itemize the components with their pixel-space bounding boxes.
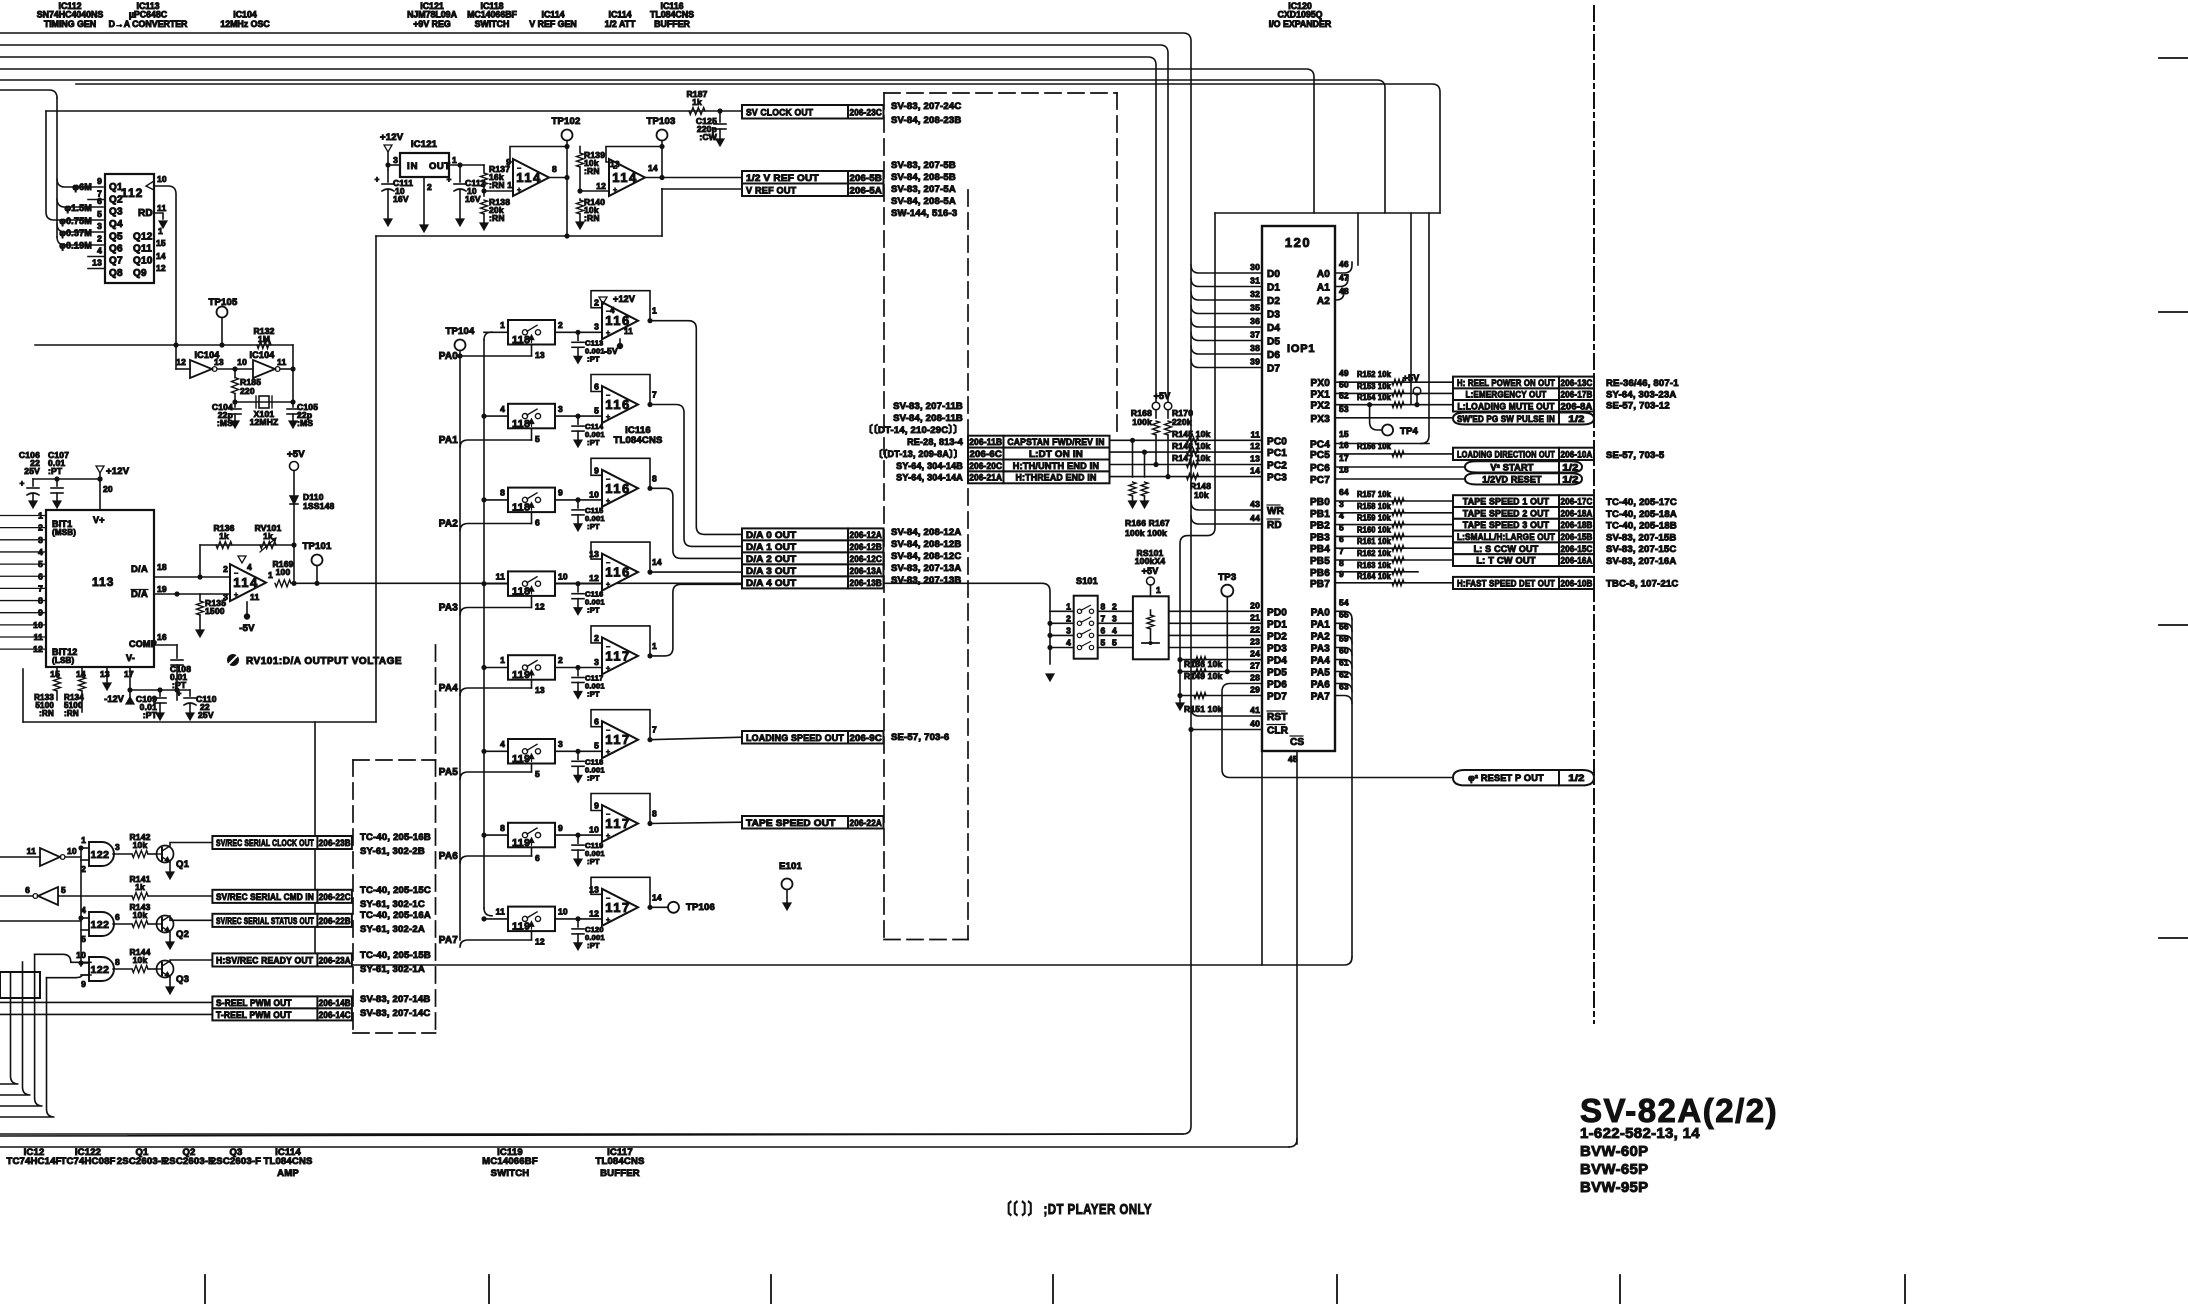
svg-text:100k: 100k [1132, 417, 1152, 427]
svg-text:10: 10 [237, 357, 247, 367]
svg-text:19: 19 [157, 584, 167, 594]
svg-text:10k: 10k [133, 955, 148, 965]
svg-text:12: 12 [156, 263, 166, 273]
svg-text:11: 11 [27, 846, 36, 856]
svg-text:56: 56 [1339, 621, 1349, 631]
svg-text:206-13C: 206-13C [1561, 378, 1593, 388]
svg-text::RN: :RN [489, 213, 505, 223]
svg-text:PB2: PB2 [1310, 521, 1330, 532]
svg-text:30: 30 [1250, 262, 1260, 272]
svg-text:206-10A: 206-10A [1561, 449, 1593, 459]
svg-text:220: 220 [240, 386, 255, 396]
svg-text:2: 2 [1066, 613, 1071, 623]
svg-text:D/A 2 OUT: D/A 2 OUT [746, 554, 796, 565]
svg-text:L:EMERGENCY OUT: L:EMERGENCY OUT [1466, 390, 1547, 400]
svg-text::RN: :RN [39, 709, 54, 718]
svg-text:R164 10k: R164 10k [1357, 572, 1391, 581]
svg-text:PB6: PB6 [1310, 568, 1330, 579]
svg-text:64: 64 [1339, 487, 1349, 497]
svg-text:−: − [606, 644, 610, 651]
svg-text:18: 18 [157, 562, 167, 572]
svg-text:TP101: TP101 [303, 541, 333, 552]
svg-text:1/2 ATT: 1/2 ATT [605, 19, 636, 29]
svg-text:206-12C: 206-12C [850, 554, 883, 564]
svg-text:206-22A: 206-22A [850, 818, 883, 828]
svg-text:PA7: PA7 [439, 935, 459, 946]
svg-text::PT: :PT [587, 354, 600, 363]
svg-text:13: 13 [535, 685, 545, 695]
svg-text:Q1: Q1 [176, 859, 190, 870]
svg-text:−: − [606, 476, 610, 483]
svg-text:L: S CCW OUT: L: S CCW OUT [1474, 544, 1539, 554]
svg-text:39: 39 [1250, 357, 1260, 367]
svg-text:+5V: +5V [1403, 373, 1420, 383]
svg-text:D0: D0 [1267, 269, 1280, 280]
svg-text::CW: :CW [699, 132, 717, 142]
svg-text:PX3: PX3 [1310, 414, 1330, 425]
svg-text:5: 5 [1112, 638, 1117, 648]
svg-text:V REF GEN: V REF GEN [529, 19, 576, 29]
svg-text:φ1.5M: φ1.5M [65, 203, 92, 213]
svg-text:15: 15 [1339, 429, 1349, 439]
svg-text:(LSB): (LSB) [52, 656, 74, 665]
svg-text:A2: A2 [1317, 296, 1330, 307]
svg-text:27: 27 [1250, 661, 1260, 671]
svg-text:5: 5 [38, 559, 43, 569]
svg-text:SV/REC SERIAL STATUS OUT: SV/REC SERIAL STATUS OUT [216, 916, 314, 926]
svg-text:118: 118 [512, 334, 530, 346]
svg-text:1k: 1k [692, 97, 702, 107]
svg-text:H: REEL POWER ON OUT: H: REEL POWER ON OUT [1457, 378, 1555, 388]
svg-text:16V: 16V [393, 194, 409, 204]
svg-text:206-10B: 206-10B [1561, 578, 1593, 588]
svg-text:PA5: PA5 [1311, 668, 1331, 679]
svg-text:PX2: PX2 [1310, 401, 1330, 412]
svg-text:SY-61, 302-1C: SY-61, 302-1C [360, 899, 425, 910]
svg-text:−: − [517, 166, 521, 173]
svg-text:10: 10 [589, 825, 599, 835]
svg-text:RV101:D/A OUTPUT VOLTAGE: RV101:D/A OUTPUT VOLTAGE [246, 656, 402, 667]
svg-text:SW-144, 516-3: SW-144, 516-3 [891, 208, 957, 219]
svg-text:206-9C: 206-9C [850, 733, 883, 743]
svg-text:PX0: PX0 [1310, 378, 1330, 389]
svg-text::PT: :PT [587, 857, 600, 866]
svg-text:PA1: PA1 [1311, 619, 1331, 630]
svg-text:R154 10k: R154 10k [1357, 393, 1391, 402]
svg-text:1/2: 1/2 [1562, 462, 1578, 472]
svg-text:8: 8 [38, 596, 43, 606]
svg-text:PA3: PA3 [1311, 644, 1331, 655]
svg-text:41: 41 [1250, 705, 1260, 715]
svg-text:-12V: -12V [104, 694, 124, 704]
svg-text:16: 16 [157, 632, 167, 642]
svg-text:8: 8 [115, 957, 120, 967]
svg-text:PD7: PD7 [1267, 692, 1287, 703]
svg-text:13: 13 [92, 258, 102, 268]
svg-text:7: 7 [38, 583, 43, 593]
svg-text::MS: :MS [217, 418, 233, 428]
svg-text:+: + [606, 665, 610, 672]
svg-text:38: 38 [1250, 343, 1260, 353]
svg-text:Q9: Q9 [133, 268, 147, 279]
svg-text:43: 43 [1250, 499, 1260, 509]
svg-text:3: 3 [1339, 499, 1344, 509]
svg-text:+5V: +5V [1142, 566, 1159, 576]
svg-text:36: 36 [1250, 316, 1260, 326]
svg-text:18: 18 [1339, 465, 1349, 475]
svg-text:12: 12 [535, 601, 545, 611]
svg-text:PB4: PB4 [1310, 544, 1330, 555]
svg-text:D5: D5 [1267, 337, 1280, 348]
svg-text:+9V REG: +9V REG [413, 19, 451, 29]
svg-text:12: 12 [596, 181, 606, 191]
svg-text:9: 9 [38, 608, 43, 618]
svg-text:SV-84, 208-5A: SV-84, 208-5A [891, 196, 956, 207]
svg-text:1/2 V REF OUT: 1/2 V REF OUT [746, 173, 819, 184]
svg-text:D3: D3 [1267, 310, 1280, 321]
svg-text:R157 10k: R157 10k [1357, 490, 1391, 499]
svg-text:SV-84, 208-12B: SV-84, 208-12B [891, 539, 961, 550]
svg-text:RD: RD [1267, 520, 1282, 531]
svg-text:SV-83, 207-15C: SV-83, 207-15C [1606, 544, 1676, 555]
svg-text:+: + [517, 187, 521, 194]
svg-text:SV-83, 207-5A: SV-83, 207-5A [891, 184, 956, 195]
svg-text:CXD1095Q: CXD1095Q [1278, 10, 1323, 20]
svg-text:TP103: TP103 [647, 116, 676, 127]
svg-text:2: 2 [594, 298, 599, 308]
svg-text:4: 4 [1066, 638, 1071, 648]
svg-text:R158 10k: R158 10k [1357, 502, 1391, 511]
svg-text:4: 4 [1339, 511, 1344, 521]
svg-text:D/A 0 OUT: D/A 0 OUT [746, 530, 796, 541]
svg-text:+5V: +5V [1154, 391, 1171, 401]
svg-text:4: 4 [1112, 625, 1117, 635]
svg-text:220k: 220k [1172, 417, 1192, 427]
svg-text:1/2: 1/2 [1568, 414, 1584, 424]
svg-text:9: 9 [97, 176, 102, 186]
svg-text:61: 61 [1339, 658, 1349, 668]
svg-text:D/A 4 OUT: D/A 4 OUT [746, 578, 796, 589]
svg-text:100k 100k: 100k 100k [1125, 528, 1167, 538]
svg-text:122: 122 [91, 849, 110, 861]
svg-text:NJM78L09A: NJM78L09A [407, 10, 458, 20]
svg-text:+5V: +5V [287, 449, 305, 460]
svg-text:SN74HC4040NS: SN74HC4040NS [37, 10, 104, 20]
svg-text:L:SMALL/H:LARGE OUT: L:SMALL/H:LARGE OUT [1457, 532, 1555, 542]
svg-text:MC14066BF: MC14066BF [482, 1156, 538, 1167]
svg-text:6: 6 [594, 717, 599, 727]
svg-text:I/O EXPANDER: I/O EXPANDER [1269, 19, 1332, 29]
svg-text:4: 4 [97, 246, 102, 256]
svg-text:-5V: -5V [604, 346, 618, 356]
svg-text:1k: 1k [135, 882, 145, 892]
svg-text:BUFFER: BUFFER [600, 1168, 640, 1179]
svg-text:A0: A0 [1317, 269, 1330, 280]
svg-text:PA4: PA4 [439, 683, 459, 694]
svg-text:-5V: -5V [239, 623, 255, 634]
svg-text:D2: D2 [1267, 296, 1280, 307]
svg-text:SV-84, 208-5B: SV-84, 208-5B [891, 172, 956, 183]
svg-text:WR: WR [1267, 506, 1285, 517]
svg-text:SV-84, 208-23B: SV-84, 208-23B [891, 115, 961, 126]
svg-text:29: 29 [1250, 685, 1260, 695]
svg-text:(MSB): (MSB) [52, 528, 76, 537]
svg-text:2: 2 [223, 564, 228, 574]
svg-text:45: 45 [1288, 754, 1298, 764]
svg-text:118: 118 [512, 585, 530, 597]
svg-text:206-20C: 206-20C [969, 461, 1002, 471]
svg-text:8: 8 [652, 809, 657, 819]
svg-text:R146 10k: R146 10k [1172, 441, 1211, 451]
svg-text:54: 54 [1339, 597, 1349, 607]
svg-text:7: 7 [1339, 546, 1344, 556]
svg-text:Q3: Q3 [176, 974, 189, 985]
svg-text:13: 13 [589, 884, 599, 894]
svg-text:TP102: TP102 [552, 116, 581, 127]
svg-text:10: 10 [67, 846, 77, 856]
svg-text:SY-64, 303-23A: SY-64, 303-23A [1606, 389, 1676, 400]
svg-text:13: 13 [1250, 454, 1260, 464]
svg-text:PX1: PX1 [1310, 389, 1330, 400]
svg-text:11: 11 [496, 571, 505, 581]
svg-text:+: + [606, 917, 610, 924]
svg-text:H:FAST SPEED DET OUT: H:FAST SPEED DET OUT [1457, 578, 1555, 588]
svg-text:5: 5 [535, 769, 540, 779]
svg-text:+12V: +12V [106, 466, 130, 477]
svg-text:12: 12 [589, 573, 599, 583]
svg-text:PD4: PD4 [1267, 656, 1287, 667]
svg-text:119: 119 [512, 921, 530, 933]
svg-text:1k: 1k [219, 531, 229, 541]
svg-text:11: 11 [250, 592, 259, 602]
svg-text:8: 8 [652, 473, 657, 483]
svg-text:15: 15 [156, 238, 166, 248]
svg-text:V+: V+ [93, 515, 105, 525]
svg-text:8: 8 [1101, 601, 1106, 611]
svg-text:SV-84, 208-12C: SV-84, 208-12C [891, 551, 961, 562]
svg-text:COMP: COMP [129, 639, 157, 649]
svg-text:+: + [613, 187, 617, 194]
svg-text:4: 4 [500, 739, 505, 749]
svg-text:SY-64, 304-14B: SY-64, 304-14B [896, 461, 963, 471]
svg-text:119: 119 [512, 753, 530, 765]
svg-text:V-: V- [126, 653, 135, 663]
svg-text:2: 2 [558, 655, 563, 665]
svg-text:11: 11 [496, 907, 505, 917]
svg-text:R159 10k: R159 10k [1357, 514, 1391, 523]
svg-text:2: 2 [81, 864, 86, 874]
svg-text:6: 6 [1339, 534, 1344, 544]
svg-text:13: 13 [589, 549, 599, 559]
svg-text:10: 10 [76, 950, 86, 960]
svg-text:2SC2603-F: 2SC2603-F [211, 1156, 261, 1167]
svg-text:206-23C: 206-23C [850, 107, 883, 117]
svg-text:PC3: PC3 [1267, 473, 1287, 484]
svg-text:PC0: PC0 [1267, 436, 1287, 447]
svg-text:20: 20 [103, 484, 113, 494]
svg-text:D→A CONVERTER: D→A CONVERTER [109, 19, 188, 29]
svg-text:SV-83, 207-15B: SV-83, 207-15B [1606, 532, 1676, 543]
svg-text:206-23B: 206-23B [319, 838, 351, 848]
svg-text:SV-83, 207-24C: SV-83, 207-24C [891, 101, 961, 112]
svg-text:4: 4 [247, 562, 252, 572]
svg-text:BVW-65P: BVW-65P [1580, 1161, 1648, 1178]
svg-text:IC104: IC104 [233, 10, 257, 20]
svg-text:TBC-8, 107-21C: TBC-8, 107-21C [1606, 579, 1679, 590]
svg-text:5: 5 [61, 885, 66, 895]
svg-text:R160 10k: R160 10k [1357, 525, 1391, 534]
svg-text:+: + [606, 330, 610, 337]
svg-text::MS: :MS [297, 418, 313, 428]
svg-text:PA4: PA4 [1311, 656, 1331, 667]
svg-text:206-22B: 206-22B [319, 916, 351, 926]
svg-text:D4: D4 [1267, 323, 1280, 334]
svg-text:L:LOADING MUTE OUT: L:LOADING MUTE OUT [1457, 401, 1554, 411]
svg-text:CS: CS [1290, 737, 1304, 748]
svg-text:TL084CNS: TL084CNS [263, 1156, 312, 1167]
svg-text:R151 10k: R151 10k [1184, 704, 1223, 714]
svg-text:SWITCH: SWITCH [491, 1168, 530, 1179]
svg-text:206-23A: 206-23A [319, 955, 351, 965]
svg-text:TAPE SPEED 3 OUT: TAPE SPEED 3 OUT [1463, 520, 1550, 530]
svg-text:Q7: Q7 [109, 256, 123, 267]
svg-text:10k: 10k [133, 910, 148, 920]
svg-text:SV-83, 207-16A: SV-83, 207-16A [1606, 556, 1676, 567]
svg-text:206-17C: 206-17C [1561, 497, 1593, 507]
svg-text:1: 1 [652, 306, 657, 316]
svg-text:11: 11 [34, 632, 43, 642]
svg-text:+: + [234, 592, 238, 599]
svg-text:AMP: AMP [277, 1168, 299, 1179]
svg-text:16V: 16V [465, 194, 481, 204]
svg-text:47: 47 [1339, 273, 1349, 283]
svg-text:PA6: PA6 [439, 851, 459, 862]
svg-text:4: 4 [500, 404, 505, 414]
svg-text:CLR: CLR [1267, 726, 1289, 737]
svg-text:IN: IN [407, 161, 419, 172]
svg-text:φ0.75M: φ0.75M [59, 216, 92, 226]
svg-text:17: 17 [1339, 453, 1349, 463]
svg-text:PC7: PC7 [1310, 475, 1330, 486]
svg-text:1-622-582-13, 14: 1-622-582-13, 14 [1580, 1125, 1700, 1142]
svg-text:−: − [234, 571, 238, 578]
svg-text:21: 21 [1250, 612, 1260, 622]
svg-text:4: 4 [38, 547, 43, 557]
svg-text:R153 10k: R153 10k [1357, 382, 1391, 391]
svg-text:LOADING SPEED OUT: LOADING SPEED OUT [746, 733, 844, 744]
svg-text:R186 10k: R186 10k [1184, 659, 1223, 669]
svg-text:1/2: 1/2 [1562, 474, 1578, 484]
svg-text:SV-83, 207-5B: SV-83, 207-5B [891, 160, 956, 171]
svg-text:−: − [606, 393, 610, 400]
svg-text:S-REEL PWM OUT: S-REEL PWM OUT [216, 998, 292, 1008]
svg-text:1: 1 [452, 155, 457, 165]
svg-text:7: 7 [652, 390, 657, 400]
svg-text:PD6: PD6 [1267, 680, 1287, 691]
svg-text:SV-82A(2/2): SV-82A(2/2) [1580, 1092, 1778, 1129]
svg-text:10: 10 [558, 571, 568, 581]
svg-text:L: T CW OUT: L: T CW OUT [1476, 556, 1536, 566]
svg-text:SV-83, 207-14B: SV-83, 207-14B [360, 994, 430, 1005]
svg-text:46: 46 [1339, 259, 1349, 269]
svg-text:−: − [606, 895, 610, 902]
svg-text:R152 10k: R152 10k [1357, 370, 1391, 379]
svg-text:SY-61, 302-2A: SY-61, 302-2A [360, 924, 425, 935]
svg-text:206-16A: 206-16A [1561, 556, 1593, 566]
svg-text:14: 14 [156, 251, 166, 261]
svg-text:OUT: OUT [429, 161, 451, 172]
svg-text:PA2: PA2 [439, 519, 459, 530]
svg-text:Q6: Q6 [109, 244, 123, 255]
svg-text:6: 6 [25, 885, 30, 895]
svg-text:12: 12 [589, 908, 599, 918]
svg-text:1/2: 1/2 [1568, 773, 1584, 783]
svg-text:BUFFER: BUFFER [654, 19, 690, 29]
svg-text:1: 1 [1066, 601, 1071, 611]
svg-text:H:TH/UNTH END IN: H:TH/UNTH END IN [1013, 461, 1099, 471]
svg-text:5: 5 [97, 209, 102, 219]
svg-text:206-18B: 206-18B [1561, 520, 1593, 530]
svg-text:13: 13 [610, 159, 620, 169]
svg-text:112: 112 [121, 186, 143, 200]
svg-text:IC114: IC114 [609, 10, 632, 20]
svg-text:22: 22 [1250, 624, 1260, 634]
svg-text:TC-40, 205-16B: TC-40, 205-16B [360, 832, 431, 843]
svg-text:TL084CNS: TL084CNS [595, 1156, 644, 1167]
svg-text:7: 7 [652, 725, 657, 735]
svg-text:8: 8 [552, 164, 557, 174]
svg-text:60: 60 [1339, 646, 1349, 656]
svg-text:24: 24 [1250, 649, 1260, 659]
svg-text:PC6: PC6 [1310, 463, 1330, 474]
svg-text:49: 49 [1339, 368, 1349, 378]
svg-text:PB0: PB0 [1310, 497, 1330, 508]
svg-text:BVW-60P: BVW-60P [1580, 1143, 1648, 1160]
svg-text:32: 32 [1250, 289, 1260, 299]
svg-text:SV-83, 207-11B: SV-83, 207-11B [893, 401, 963, 412]
svg-text:TC-40, 205-16A: TC-40, 205-16A [360, 910, 431, 921]
svg-text::PT: :PT [587, 606, 600, 615]
svg-text:SE-57, 703-12: SE-57, 703-12 [1606, 401, 1670, 412]
svg-text:25V: 25V [198, 710, 214, 720]
svg-text:3: 3 [1066, 625, 1071, 635]
svg-text:IC114: IC114 [542, 10, 565, 20]
svg-text:1: 1 [1156, 585, 1161, 595]
svg-text:206-12A: 206-12A [850, 530, 883, 540]
svg-text:63: 63 [1339, 682, 1349, 692]
svg-text:1k: 1k [263, 531, 273, 541]
svg-text:5: 5 [535, 434, 540, 444]
svg-text:+12V: +12V [613, 294, 635, 304]
svg-text:55: 55 [1339, 609, 1349, 619]
svg-text:1: 1 [500, 320, 505, 330]
svg-text:10: 10 [157, 174, 167, 184]
svg-text:PC1: PC1 [1267, 448, 1287, 459]
svg-text:20: 20 [1250, 600, 1260, 610]
svg-text:5: 5 [594, 406, 599, 416]
svg-text:H:SV/REC READY OUT: H:SV/REC READY OUT [216, 955, 313, 965]
svg-text:5: 5 [1101, 638, 1106, 648]
svg-text:BVW-95P: BVW-95P [1580, 1179, 1648, 1196]
svg-text:13: 13 [100, 669, 110, 679]
svg-text:2: 2 [38, 523, 43, 533]
svg-text:3: 3 [97, 221, 102, 231]
svg-text:D/A 1 OUT: D/A 1 OUT [746, 542, 796, 553]
svg-text:9: 9 [558, 823, 563, 833]
svg-text::PT: :PT [587, 773, 600, 782]
svg-text:SY-64, 304-14A: SY-64, 304-14A [896, 473, 963, 483]
svg-text:2SC2603-F: 2SC2603-F [117, 1156, 167, 1167]
